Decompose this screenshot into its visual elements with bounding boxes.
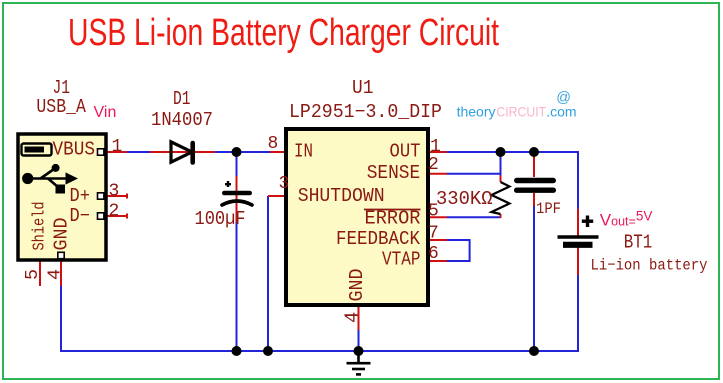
- svg-text:SENSE: SENSE: [367, 162, 421, 184]
- svg-text:5: 5: [428, 202, 439, 222]
- svg-text:FEEDBACK: FEEDBACK: [336, 228, 421, 250]
- svg-text:4: 4: [45, 269, 66, 280]
- svg-text:3: 3: [109, 182, 120, 202]
- svg-text:1PF: 1PF: [536, 200, 561, 218]
- svg-text:6: 6: [428, 244, 439, 264]
- svg-text:GND: GND: [51, 218, 73, 251]
- svg-text:GND: GND: [346, 269, 368, 302]
- svg-text:8: 8: [268, 134, 279, 154]
- svg-text:1: 1: [112, 137, 123, 157]
- svg-text:7: 7: [428, 224, 439, 244]
- svg-text:theory: theory: [457, 103, 496, 119]
- svg-text:D1: D1: [173, 88, 191, 110]
- svg-text:3: 3: [279, 174, 290, 194]
- svg-text:BT1: BT1: [624, 232, 653, 254]
- svg-text:LP2951−3.0_DIP: LP2951−3.0_DIP: [289, 101, 442, 123]
- svg-text:USB_A: USB_A: [36, 96, 86, 118]
- svg-text:VBUS: VBUS: [53, 139, 96, 161]
- svg-text:100µF: 100µF: [195, 208, 246, 230]
- svg-text:2: 2: [428, 155, 439, 175]
- svg-text:5: 5: [22, 269, 43, 280]
- svg-text:D+: D+: [70, 185, 91, 207]
- svg-text:D−: D−: [70, 205, 91, 227]
- svg-text:ERROR: ERROR: [365, 208, 421, 230]
- svg-text:VTAP: VTAP: [382, 249, 421, 271]
- svg-text:4: 4: [342, 312, 364, 323]
- svg-text:IN: IN: [294, 141, 313, 163]
- svg-text:@: @: [556, 90, 571, 106]
- svg-text:330KΩ: 330KΩ: [436, 188, 493, 210]
- svg-text:Vin: Vin: [94, 104, 117, 121]
- svg-text:U1: U1: [352, 77, 374, 99]
- svg-text:Li−ion battery: Li−ion battery: [591, 257, 708, 275]
- svg-text:1: 1: [430, 137, 441, 157]
- svg-text:USB Li-ion Battery Charger Cir: USB Li-ion Battery Charger Circuit: [68, 12, 499, 54]
- svg-text:1N4007: 1N4007: [151, 109, 213, 131]
- svg-text:2: 2: [109, 202, 120, 222]
- svg-text:SHUTDOWN: SHUTDOWN: [298, 185, 385, 207]
- svg-text:CIRCUIT: CIRCUIT: [496, 103, 546, 119]
- svg-text:Shield: Shield: [30, 202, 49, 251]
- svg-text:OUT: OUT: [390, 141, 421, 163]
